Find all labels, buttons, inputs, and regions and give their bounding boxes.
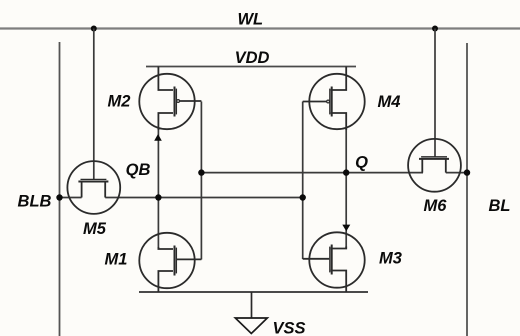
node BLB junction dot (56, 194, 62, 200)
ground VSS symbol (235, 318, 267, 334)
svg-text:M4: M4 (378, 93, 401, 111)
node Q-line left junction dot (cross-couple left) (198, 169, 204, 175)
node QB-line right junction dot (cross-couple right) (300, 194, 306, 200)
node QB junction dot (QB vertical x QB horizontal) (155, 194, 161, 200)
wire M5 gate from WL (93, 29, 95, 180)
node Q junction dot (Q vertical x Q horizontal) (343, 169, 349, 175)
svg-text:QB: QB (126, 161, 151, 179)
wire QB horizontal (M5 to gates of M3/M4) (105, 197, 303, 199)
wire Q horizontal (gates of M1/M2 to M6) (201, 172, 423, 174)
junction dot WL / M6 gate (432, 26, 438, 32)
svg-text:VDD: VDD (235, 49, 270, 67)
wire QB vertical (M2 source to M1 drain) (157, 128, 159, 249)
wire VSS stub (251, 292, 253, 318)
wire VDD rail (146, 66, 356, 68)
svg-text:M5: M5 (83, 220, 107, 238)
transistor M2 (PMOS, gate right) (139, 67, 201, 131)
arrow down on Q vertical (342, 225, 350, 232)
svg-text:VSS: VSS (273, 320, 306, 336)
wire VSS rail (139, 291, 368, 293)
svg-text:M1: M1 (105, 251, 128, 269)
junction dot WL / M5 gate (91, 26, 97, 32)
transistor M4 (PMOS, gate left) (303, 67, 365, 131)
node BL junction dot (464, 169, 470, 175)
svg-text:BLB: BLB (18, 192, 52, 210)
wire Q vertical (M4 source to M3 drain) (345, 128, 347, 249)
transistor M5 (NMOS access, gate top) (67, 161, 120, 214)
transistor M6 (NMOS access, gate top) (408, 139, 461, 192)
wire cross-couple right vertical (M4/M3 gates) (302, 102, 304, 260)
wire WL word line (0, 27, 520, 29)
wire cross-couple left vertical (M2/M1 gates) (200, 102, 202, 260)
svg-text:M6: M6 (424, 197, 448, 215)
svg-text:BL: BL (489, 197, 511, 215)
svg-text:Q: Q (355, 154, 368, 172)
wire BLB bit line bar (vertical) (59, 42, 61, 336)
svg-text:WL: WL (237, 11, 263, 29)
svg-text:M3: M3 (379, 250, 402, 268)
wire BL bit line (vertical) (466, 43, 468, 336)
svg-text:M2: M2 (108, 93, 131, 111)
transistor M1 (NMOS, gate right) (139, 233, 201, 292)
wire M6 drain to BL (446, 172, 467, 174)
wire M6 gate from WL (434, 29, 436, 158)
wire BLB to M5 source (60, 197, 82, 199)
transistor M3 (NMOS, gate left) (303, 232, 365, 292)
arrow up on QB vertical (154, 134, 162, 141)
